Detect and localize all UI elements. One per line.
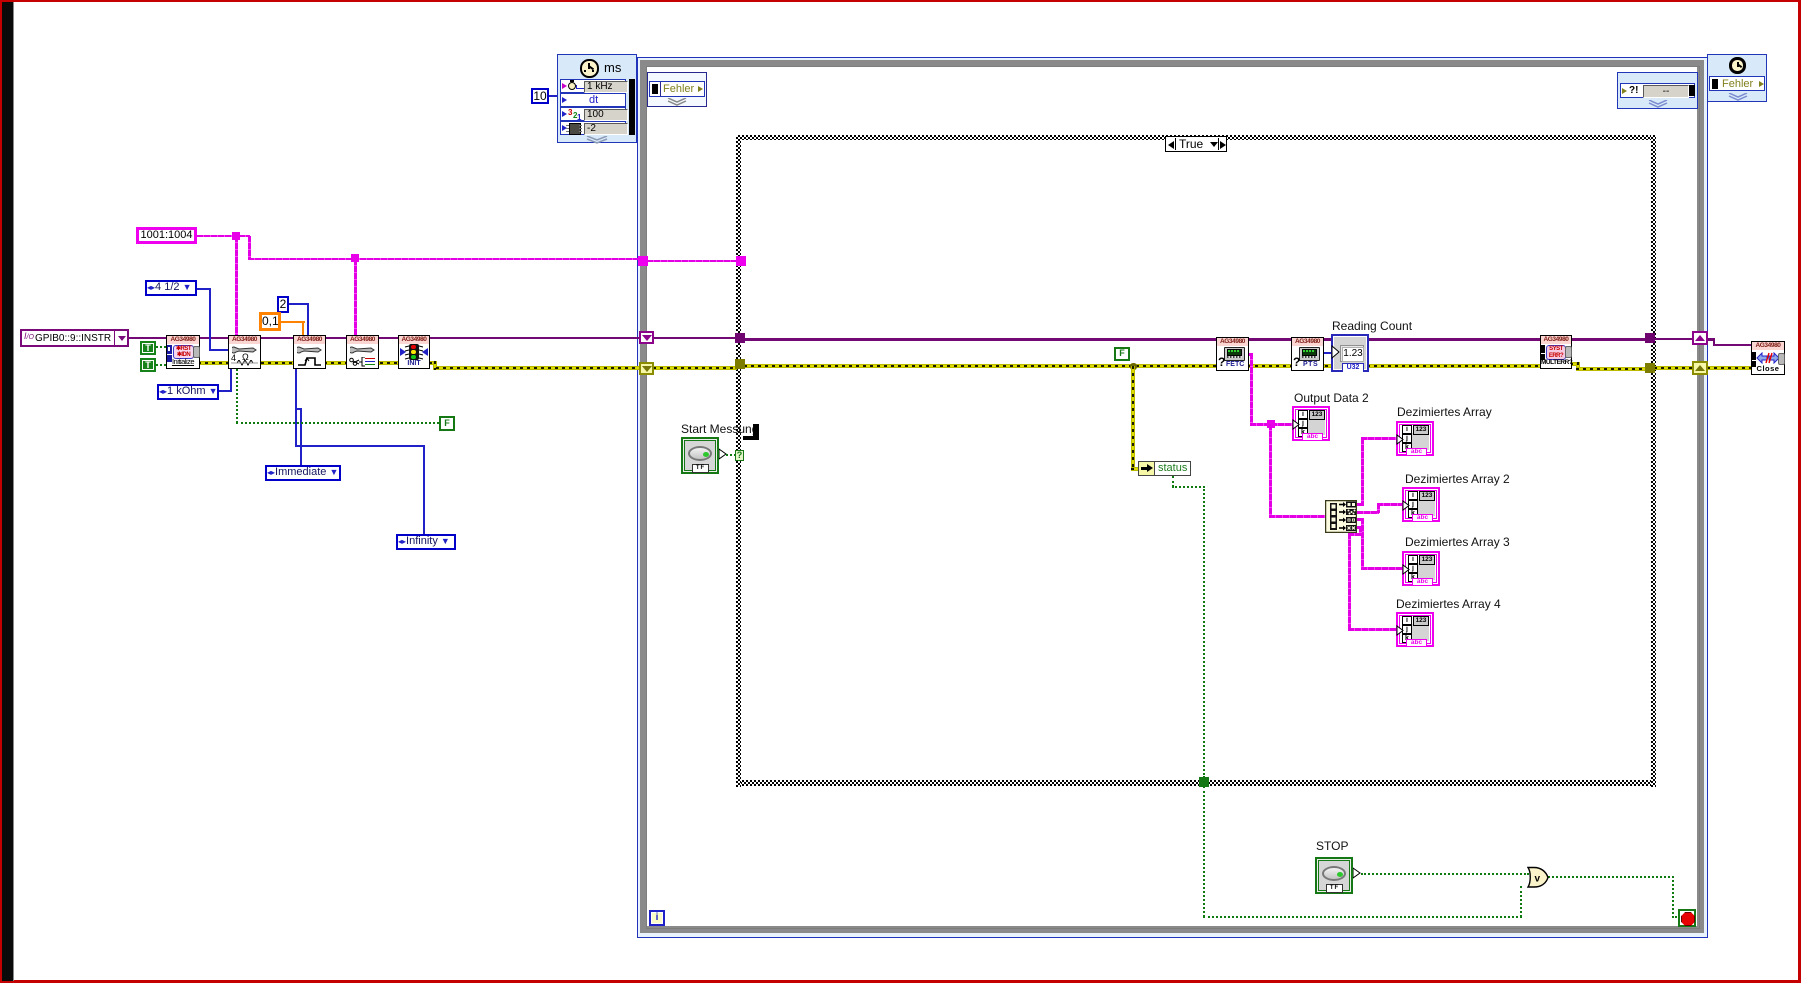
unbundle status <box>1138 461 1191 476</box>
OR gate <box>1527 866 1549 889</box>
right black bar <box>629 79 635 135</box>
VI AG34980 FETC <box>1216 337 1249 371</box>
tunnel green on case bottom border <box>1199 777 1209 787</box>
wire error inside case to FETC etc <box>744 364 1546 368</box>
chevron <box>586 136 608 144</box>
row 1 kHz <box>560 79 626 93</box>
boolean constant F (left) <box>439 416 455 431</box>
wire VISA purple: GPIB const to Initialize chain to loop <box>129 337 639 340</box>
VI AG34980 Initialize <box>166 335 200 369</box>
left black scrollbar strip <box>2 2 13 981</box>
tunnel pink on case left border <box>736 256 746 266</box>
row dt <box>560 93 626 107</box>
indicator Dezimiertes Array 4 <box>1396 597 1501 611</box>
string constant 1001:1004 <box>136 227 197 244</box>
wire error vertical branch to status <box>1131 366 1135 469</box>
indicator Dezimiertes Array 3 <box>1405 535 1510 549</box>
wire blue const 2 to VI3 top <box>289 303 309 305</box>
wire pink decimate row4 to Dezimiertes Array 4 <box>1357 526 1362 529</box>
case selector label "True" <box>1165 136 1227 152</box>
wire VISA inside case to FETC/PTS/MULTERR/right tunnel <box>744 338 1646 341</box>
wire blue 10 to ms dt <box>549 95 558 97</box>
junction dots pink <box>232 232 240 240</box>
wire orange 0,1 to VI3 top <box>281 321 305 323</box>
VI AG34980 Config Scan List <box>346 335 379 369</box>
DBL constant 0,1 <box>259 312 281 331</box>
numeric constant 10 <box>531 88 549 104</box>
tunnel error on case right border <box>1645 363 1655 373</box>
VISA resource constant GPIB0::9::INSTR <box>20 329 129 347</box>
screen border frame red <box>0 0 1801 2</box>
tunnel pink on loop left border <box>638 256 648 266</box>
Express node Fehler with clock (outside loop right) <box>1707 54 1767 102</box>
output arrow of Start Messung <box>718 448 727 460</box>
indicator Dezimiertes Array <box>1397 405 1492 419</box>
case selector ? terminal <box>735 450 744 461</box>
VI AG34980 PTS <box>1291 337 1324 371</box>
output arrow of STOP <box>1352 867 1361 879</box>
wire pink data: FETC out down to Output Data 2 and decimate <box>1247 353 1253 356</box>
wire string pink: 1001:1004 to junctions <box>197 235 250 237</box>
boolean constant T 1 <box>140 341 156 355</box>
numeric constant 2 <box>277 296 289 313</box>
wire VISA right tunnel to shift register <box>1654 338 1694 341</box>
indicator Reading Count U32 <box>1332 319 1412 333</box>
shift register right VISA (up arrow) <box>1692 331 1708 345</box>
iteration terminal i <box>649 910 665 926</box>
wire pink decimate row2 to Dezimiertes Array 2 <box>1357 511 1379 514</box>
clock icon <box>580 59 599 78</box>
indicator Dezimiertes Array 2 <box>1405 472 1510 486</box>
loop stop terminal (red octagon) <box>1678 909 1696 927</box>
wire VISA inside loop to case <box>653 337 737 340</box>
wire error jog after MULTERR <box>1570 362 1579 366</box>
tunnel VISA on case left border <box>735 333 745 343</box>
wire blue PTS to Reading Count <box>1322 352 1334 354</box>
VI AG34980 Config Trigger <box>293 335 326 369</box>
wire pink decimate row3 to Dezimiertes Array 3 <box>1357 518 1364 521</box>
wire green dotted status to bottom tunnel <box>1172 476 1174 487</box>
wire error right tunnel to right SR <box>1654 366 1694 370</box>
tunnel error on case left border <box>735 359 745 369</box>
VI AG34980 Close <box>1751 341 1785 375</box>
enum constant 1 kOhm <box>157 384 219 400</box>
indicator Output Data 2 <box>1294 391 1369 405</box>
wire green dotted below case to OR gate <box>1203 786 1205 917</box>
wire pink decimate row1 to Dezimiertes Array <box>1357 503 1364 506</box>
boolean constant T 2 <box>140 358 156 372</box>
Express node ?! (inside loop top-right) <box>1617 72 1698 109</box>
wire error: left SR to case tunnel <box>653 366 737 370</box>
wire green dotted VI2 bottom to F constant <box>236 366 238 423</box>
row 100 <box>560 107 626 121</box>
row -2 chip <box>560 121 626 135</box>
while loop outer blue outline <box>637 57 1708 938</box>
wire green dotted OR gate out to loop stop terminal <box>1548 876 1674 878</box>
wire error jog down after INIT <box>433 361 437 370</box>
svg-text:v: v <box>1535 874 1541 885</box>
tunnel VISA on case right border <box>1645 333 1655 343</box>
enum constant 4 1/2 <box>145 280 197 296</box>
wire blue 1 kOhm up to VI2 bottom <box>219 390 232 392</box>
wire error right SR to Close <box>1707 366 1751 370</box>
wire error junction dot at status branch <box>1130 363 1137 370</box>
black marker next to Start Messung label <box>753 424 759 440</box>
control Start Messung <box>681 422 758 436</box>
wire blue VI3 bottom to Immediate and Infinity <box>295 366 297 446</box>
Express VI ms (timing) <box>557 54 637 143</box>
VI AG34980 Config Resistance <box>228 335 261 369</box>
case structure checkered border <box>736 135 1656 140</box>
boolean constant F (in case) <box>1114 347 1130 361</box>
wire error: Initialize to INIT chain <box>198 361 435 365</box>
wire green dotted Start Messung to case selector <box>726 454 736 456</box>
while loop gray frame <box>640 60 1704 933</box>
shift register right error (up arrow) <box>1692 361 1708 375</box>
shift register left error (down arrow) <box>639 362 654 375</box>
shift register left VISA (down arrow) <box>639 331 654 344</box>
wire blue 4 1/2 to config VI2 <box>197 288 211 290</box>
enum constant Immediate <box>265 465 341 481</box>
wire green dotted STOP to OR gate <box>1361 873 1529 875</box>
decimate 1D array node <box>1325 500 1357 533</box>
control STOP <box>1316 839 1348 853</box>
VI AG34980 MULTERR? <box>1540 335 1572 369</box>
wire VISA from right SR to Close VI with jog <box>1707 338 1715 341</box>
enum constant Infinity <box>396 534 456 550</box>
Express terminal Fehler (inside loop top-left) <box>647 72 707 107</box>
VI AG34980 INIT (traffic light) <box>398 335 430 369</box>
wire green dotted T consts to Initialize <box>156 346 166 348</box>
wire string between loop tunnel and case tunnel <box>647 260 737 262</box>
